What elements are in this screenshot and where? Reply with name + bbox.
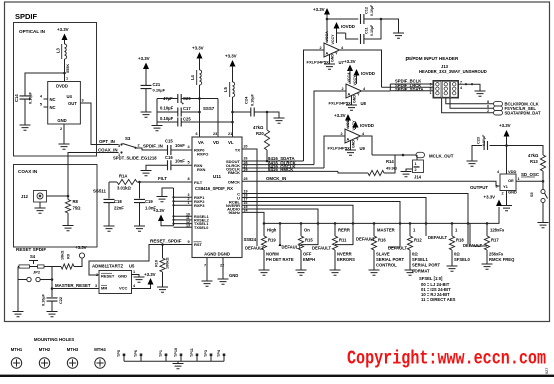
svg-text:2: 2 bbox=[341, 132, 343, 136]
wire cap left bus bbox=[156, 99, 158, 126]
svg-text:EMPH: EMPH bbox=[303, 257, 315, 262]
wire pin stub bbox=[174, 219, 193, 221]
ground bbox=[393, 33, 404, 38]
net 8416_OSCLK bbox=[242, 167, 324, 169]
power IOVDD U7 bbox=[334, 22, 340, 29]
wire U9 input bbox=[324, 136, 345, 168]
inductor L5 bbox=[233, 82, 235, 97]
svg-text:OMCK: OMCK bbox=[228, 179, 240, 184]
svg-text:TP10: TP10 bbox=[174, 348, 178, 357]
OPTICAL IN section box bbox=[14, 23, 97, 157]
wire C16 left to ground bbox=[146, 165, 167, 170]
ground bbox=[296, 270, 307, 275]
net AUDIO status bbox=[242, 209, 318, 245]
svg-text:TP3: TP3 bbox=[204, 350, 208, 357]
svg-text:SDATA/IPDM_DAT: SDATA/IPDM_DAT bbox=[505, 110, 541, 115]
header J13 3x3 bbox=[433, 81, 459, 99]
svg-text:ERRORS: ERRORS bbox=[337, 257, 355, 262]
oscillator Y1 bbox=[500, 174, 516, 191]
wire U4 gnd bbox=[63, 124, 65, 144]
svg-text:3.01kΩ: 3.01kΩ bbox=[117, 186, 131, 191]
svg-text:+3.3V: +3.3V bbox=[225, 54, 237, 59]
svg-text:C15: C15 bbox=[165, 139, 173, 144]
svg-text:TP4: TP4 bbox=[217, 349, 221, 357]
ground bbox=[330, 270, 341, 275]
svg-text:JP2: JP2 bbox=[33, 270, 41, 275]
svg-text:2: 2 bbox=[415, 168, 417, 172]
svg-text:3: 3 bbox=[118, 144, 120, 148]
capacitor C15 bbox=[168, 145, 171, 155]
svg-text:C23: C23 bbox=[477, 137, 481, 144]
wire header right gnd bbox=[459, 84, 481, 91]
svg-text:OE: OE bbox=[508, 178, 514, 183]
svg-text:3: 3 bbox=[82, 99, 84, 103]
wire R14 to MCLK bbox=[384, 155, 403, 173]
svg-text:25: 25 bbox=[244, 177, 248, 181]
svg-text:NC: NC bbox=[50, 97, 56, 102]
svg-text:FILT: FILT bbox=[194, 180, 203, 185]
svg-text:NVERR: NVERR bbox=[337, 252, 352, 257]
svg-text:22: 22 bbox=[220, 264, 224, 268]
ground bbox=[152, 126, 163, 131]
svg-text:VCCA: VCCA bbox=[346, 117, 350, 128]
ground bbox=[104, 226, 115, 231]
pin NC 5 bbox=[44, 106, 48, 108]
svg-text:6: 6 bbox=[196, 132, 198, 136]
svg-text:Copyright:www.eccn.com: Copyright:www.eccn.com bbox=[347, 348, 546, 370]
svg-text:49.9Ω: 49.9Ω bbox=[386, 166, 398, 171]
svg-text:R16: R16 bbox=[378, 238, 386, 243]
svg-text:NORM: NORM bbox=[266, 252, 279, 257]
ground bbox=[202, 281, 213, 286]
svg-text:VA: VA bbox=[198, 140, 205, 145]
svg-text:IOVDD: IOVDD bbox=[360, 123, 374, 128]
svg-text:CS8416_SPDIF_RX: CS8416_SPDIF_RX bbox=[195, 186, 233, 191]
svg-text:SS824: SS824 bbox=[244, 237, 257, 242]
resistor R1A bbox=[117, 179, 137, 184]
svg-text:S/PDM INPUT HEADER: S/PDM INPUT HEADER bbox=[408, 56, 459, 61]
svg-text:R12: R12 bbox=[414, 238, 422, 243]
svg-text:0.10µF: 0.10µF bbox=[160, 116, 174, 121]
svg-text:IOVDD: IOVDD bbox=[341, 24, 355, 29]
wire U8 output bbox=[362, 90, 391, 92]
svg-text:GND: GND bbox=[330, 54, 334, 62]
svg-text:RMCK: RMCK bbox=[228, 170, 240, 175]
ground bbox=[13, 312, 24, 317]
wire pin stub bbox=[174, 223, 193, 225]
svg-text:SPDT_SLIDE_EG1218: SPDT_SLIDE_EG1218 bbox=[113, 156, 157, 161]
svg-text:MTH4: MTH4 bbox=[94, 347, 106, 352]
wire J12 out bbox=[47, 195, 69, 197]
svg-text:U9: U9 bbox=[360, 146, 366, 151]
capacitor C14 bbox=[20, 96, 31, 99]
wire SPDIF_IN junction up bbox=[160, 149, 167, 151]
net 8416_RMCK bbox=[242, 170, 338, 172]
ground bbox=[63, 226, 74, 231]
resistor R16 strap bbox=[373, 223, 375, 236]
svg-text:FORMAT: FORMAT bbox=[412, 268, 430, 273]
svg-text:TP11: TP11 bbox=[190, 348, 194, 357]
net 96kHz status bbox=[242, 212, 264, 234]
wires header to output jacks bbox=[446, 98, 494, 104]
wire TP bus bbox=[124, 360, 224, 362]
wire VA rail bbox=[199, 85, 201, 137]
svg-text:R13: R13 bbox=[530, 159, 538, 164]
capacitor C16 bbox=[168, 160, 171, 170]
ground bbox=[482, 264, 493, 269]
ground bbox=[35, 208, 46, 213]
wire C16 to RXN bbox=[171, 164, 192, 166]
svg-text:L5: L5 bbox=[223, 86, 228, 92]
wire S4 left gnd bbox=[17, 280, 19, 312]
svg-text:SSS7: SSS7 bbox=[203, 106, 215, 111]
svg-text:DEFAULT: DEFAULT bbox=[428, 235, 447, 240]
resistor R14 bbox=[338, 171, 368, 173]
svg-text:10kΩ: 10kΩ bbox=[61, 251, 65, 260]
ground bbox=[59, 144, 70, 149]
wire pin stub bbox=[174, 200, 193, 202]
ground bbox=[157, 287, 168, 292]
svg-text:GND: GND bbox=[57, 118, 66, 123]
svg-text:RESET: RESET bbox=[101, 274, 115, 279]
svg-text:VCCY: VCCY bbox=[353, 75, 357, 86]
ground bbox=[134, 277, 145, 282]
svg-text:IOVDD: IOVDD bbox=[361, 71, 375, 76]
svg-text:96kHz: 96kHz bbox=[228, 210, 240, 215]
svg-text:U8: U8 bbox=[361, 101, 367, 106]
wire C11 right bbox=[364, 19, 381, 39]
svg-text:S5: S5 bbox=[530, 192, 534, 197]
svg-text:10nF: 10nF bbox=[175, 143, 185, 148]
wire tie bus bbox=[173, 188, 175, 226]
svg-text:TX: TX bbox=[235, 148, 240, 153]
net FILT wire bbox=[109, 181, 117, 183]
svg-text:C16: C16 bbox=[165, 155, 173, 160]
svg-text:0.10µF: 0.10µF bbox=[370, 4, 374, 16]
ground bbox=[467, 161, 478, 166]
svg-text:U5: U5 bbox=[129, 264, 135, 269]
svg-text:0.10µF: 0.10µF bbox=[42, 293, 46, 306]
svg-text:OMCK_IN: OMCK_IN bbox=[266, 176, 286, 181]
svg-text:3: 3 bbox=[496, 185, 498, 189]
svg-text:VCC: VCC bbox=[119, 286, 128, 291]
svg-text:0Ω: 0Ω bbox=[454, 252, 460, 257]
wire Y1 gnd bbox=[506, 191, 508, 206]
svg-text:R11: R11 bbox=[339, 238, 347, 243]
svg-text:SLAVE: SLAVE bbox=[376, 252, 390, 257]
svg-text:RERR: RERR bbox=[338, 228, 350, 233]
ground bbox=[141, 171, 152, 176]
net OMCK_IN bbox=[242, 181, 500, 186]
net RCBL status bbox=[242, 202, 400, 248]
svg-text:C18: C18 bbox=[114, 199, 122, 204]
svg-text:C21: C21 bbox=[153, 82, 161, 87]
svg-text:R19: R19 bbox=[268, 238, 276, 243]
connector MCLK_OUT bbox=[403, 154, 416, 156]
COAX IN section box bbox=[14, 165, 98, 248]
svg-text:5: 5 bbox=[188, 160, 190, 164]
svg-text:U11: U11 bbox=[213, 174, 222, 179]
svg-text:555K: 555K bbox=[66, 64, 70, 73]
wire master reset bbox=[52, 267, 99, 289]
bottom bar bbox=[0, 375, 554, 377]
svg-text:MTH1: MTH1 bbox=[11, 347, 23, 352]
wire R17 option bbox=[470, 223, 487, 246]
svg-text:RESET_SPDIF: RESET_SPDIF bbox=[150, 239, 182, 244]
svg-text:NC: NC bbox=[50, 105, 56, 110]
svg-text:C19: C19 bbox=[145, 199, 153, 204]
svg-text:RST: RST bbox=[194, 242, 203, 247]
svg-text:0.10µF: 0.10µF bbox=[370, 24, 374, 36]
svg-text:VL: VL bbox=[228, 140, 234, 145]
wire bbox=[24, 99, 26, 125]
net RESET_SPDIF bbox=[89, 245, 192, 276]
capacitor C12 bbox=[327, 18, 358, 20]
svg-text:+3.3V: +3.3V bbox=[334, 113, 346, 118]
svg-text:J12: J12 bbox=[21, 194, 29, 199]
svg-text:OPT_IN: OPT_IN bbox=[99, 139, 115, 144]
svg-text:RXPO: RXPO bbox=[197, 152, 208, 157]
svg-text:GND: GND bbox=[352, 95, 356, 103]
svg-text:OUTPUT: OUTPUT bbox=[470, 185, 488, 190]
svg-text:47kΩ: 47kΩ bbox=[528, 153, 539, 158]
ground bbox=[141, 112, 152, 117]
svg-text:C12: C12 bbox=[365, 7, 369, 14]
wire pin stub bbox=[174, 204, 193, 206]
svg-text:SFSEL0: SFSEL0 bbox=[454, 257, 470, 262]
svg-text:+3.3V: +3.3V bbox=[75, 245, 87, 250]
ground bbox=[47, 312, 58, 317]
wire C15 to RXP0 bbox=[171, 149, 192, 151]
svg-text:C24: C24 bbox=[244, 96, 249, 104]
svg-text:R1A: R1A bbox=[119, 174, 127, 179]
svg-text:11 = DIRECT AES: 11 = DIRECT AES bbox=[421, 297, 456, 302]
ground bbox=[157, 197, 168, 202]
capacitor C18 bbox=[108, 182, 110, 199]
connector J14 bbox=[413, 160, 424, 173]
svg-text:VCCA: VCCA bbox=[325, 31, 329, 42]
svg-text:C22: C22 bbox=[59, 297, 63, 304]
svg-text:GND: GND bbox=[508, 190, 517, 195]
svg-text:MOUNTING HOLES: MOUNTING HOLES bbox=[34, 337, 74, 342]
svg-text:2: 2 bbox=[320, 46, 322, 50]
svg-text:VDD: VDD bbox=[508, 169, 517, 174]
svg-text:8: 8 bbox=[487, 100, 489, 104]
svg-text:+3.3V: +3.3V bbox=[313, 7, 325, 12]
svg-text:23: 23 bbox=[213, 132, 217, 136]
svg-text:5: 5 bbox=[40, 103, 42, 107]
buffer U7 FXLP34P5X bbox=[324, 43, 340, 57]
wire SPDIF_IN bbox=[136, 148, 168, 150]
net C status bbox=[242, 194, 468, 245]
svg-text:MR: MR bbox=[101, 286, 107, 291]
svg-text:R20: R20 bbox=[256, 131, 264, 136]
capacitor C22 bbox=[51, 289, 53, 298]
svg-text:128xFs: 128xFs bbox=[490, 228, 505, 233]
svg-text:0Ω: 0Ω bbox=[412, 252, 418, 257]
svg-text:MTH2: MTH2 bbox=[39, 347, 51, 352]
svg-text:0.10µF: 0.10µF bbox=[153, 88, 166, 93]
default strap stub bbox=[279, 223, 281, 245]
power IOVDD U9 bbox=[353, 121, 359, 128]
svg-text:ADM811TARTZ: ADM811TARTZ bbox=[92, 264, 123, 269]
wire bbox=[64, 40, 66, 45]
resistor R18 strap bbox=[451, 223, 453, 236]
svg-text:FILT: FILT bbox=[158, 176, 167, 181]
wire bus join bbox=[389, 84, 391, 91]
net TX bbox=[242, 149, 257, 246]
svg-text:SERIAL PORT: SERIAL PORT bbox=[412, 263, 441, 268]
svg-text:26: 26 bbox=[244, 157, 248, 161]
svg-text:J14: J14 bbox=[414, 175, 422, 180]
svg-text:14: 14 bbox=[244, 208, 248, 212]
svg-text:VCCA: VCCA bbox=[347, 72, 351, 83]
wire U9 output bbox=[361, 136, 373, 155]
svg-text:GND: GND bbox=[229, 273, 238, 278]
svg-text:+3.3V: +3.3V bbox=[153, 208, 165, 213]
svg-text:C25: C25 bbox=[183, 117, 191, 122]
svg-text:1: 1 bbox=[66, 77, 68, 81]
svg-text:A: A bbox=[348, 93, 351, 97]
wire OE to R13 bbox=[516, 180, 543, 182]
svg-text:AGND DGND: AGND DGND bbox=[204, 252, 230, 257]
svg-text:+3.3V: +3.3V bbox=[344, 59, 356, 64]
svg-text:9: 9 bbox=[188, 240, 190, 244]
inductor L4 bbox=[200, 70, 202, 85]
svg-text:1: 1 bbox=[133, 270, 135, 274]
resistor R8 bbox=[67, 196, 69, 200]
wire VD rail bbox=[217, 99, 219, 138]
svg-text:2: 2 bbox=[502, 192, 504, 196]
svg-text:3: 3 bbox=[95, 284, 97, 288]
svg-text:+3.3V: +3.3V bbox=[144, 272, 156, 277]
svg-text:S4: S4 bbox=[30, 254, 36, 259]
wire J12 shell to ground bbox=[39, 202, 41, 208]
wire pin stub bbox=[174, 196, 193, 198]
svg-text:+3.3V: +3.3V bbox=[484, 195, 496, 200]
svg-text:A: A bbox=[347, 138, 350, 142]
wire bbox=[64, 59, 66, 82]
ground bbox=[405, 270, 416, 275]
wire U7 input bbox=[304, 50, 325, 161]
buffer U9 FXLP34P5X bbox=[345, 129, 361, 143]
svg-text:1: 1 bbox=[188, 201, 190, 205]
svg-text:RESET SPDIF: RESET SPDIF bbox=[16, 247, 46, 252]
svg-text:+3.3V: +3.3V bbox=[138, 56, 150, 61]
net 8416_SDATA bbox=[242, 160, 304, 162]
connector SDATA/IPDM_DAT bbox=[494, 111, 503, 115]
optical receiver U4 bbox=[48, 82, 81, 125]
svg-text:RXN: RXN bbox=[197, 167, 206, 172]
ground bbox=[218, 279, 229, 284]
svg-text:75Ω: 75Ω bbox=[73, 206, 82, 211]
svg-text:On: On bbox=[304, 228, 310, 233]
svg-text:+3.3V: +3.3V bbox=[57, 27, 69, 32]
resistor R19 strap bbox=[263, 223, 265, 236]
svg-text:256xFs: 256xFs bbox=[489, 252, 504, 257]
svg-text:OFF: OFF bbox=[303, 252, 312, 257]
svg-text:U4: U4 bbox=[67, 94, 73, 99]
svg-text:8416_RMCK: 8416_RMCK bbox=[268, 167, 294, 172]
ground bbox=[259, 270, 270, 275]
svg-text:1: 1 bbox=[430, 91, 432, 95]
svg-text:7: 7 bbox=[204, 264, 206, 268]
svg-text:GND: GND bbox=[118, 274, 127, 279]
svg-text:027: 027 bbox=[545, 368, 549, 374]
svg-text:10nF: 10nF bbox=[175, 159, 185, 164]
capacitor C11 bbox=[346, 33, 359, 39]
ground bbox=[538, 223, 549, 228]
svg-text:1: 1 bbox=[518, 177, 520, 181]
net U status bbox=[242, 198, 426, 237]
svg-text:29: 29 bbox=[244, 168, 248, 172]
svg-text:2: 2 bbox=[487, 109, 489, 113]
resistor R17 strap bbox=[486, 223, 488, 236]
svg-text:SD_OSC: SD_OSC bbox=[521, 172, 540, 177]
svg-text:R17: R17 bbox=[491, 238, 499, 243]
wire bbox=[25, 73, 65, 96]
svg-text:SERIAL PORT: SERIAL PORT bbox=[376, 257, 405, 262]
svg-text:COAX_IN: COAX_IN bbox=[98, 148, 118, 153]
svg-text:RXP3: RXP3 bbox=[194, 203, 205, 208]
wire pin stub bbox=[174, 215, 193, 217]
svg-text:SPDIF: SPDIF bbox=[15, 12, 38, 21]
svg-text:+3.3V: +3.3V bbox=[192, 46, 204, 51]
svg-text:MTH3: MTH3 bbox=[67, 347, 79, 352]
svg-text:21: 21 bbox=[228, 132, 232, 136]
svg-text:2: 2 bbox=[138, 144, 140, 148]
svg-text:L4: L4 bbox=[190, 74, 195, 80]
svg-text:CONTROL: CONTROL bbox=[376, 263, 397, 268]
svg-text:4: 4 bbox=[460, 86, 462, 90]
svg-text:VD: VD bbox=[213, 140, 219, 145]
ground bbox=[134, 226, 145, 231]
capacitor C21 bbox=[141, 85, 152, 88]
inductor L3 bbox=[65, 44, 67, 59]
svg-text:SPDIF_SDATA: SPDIF_SDATA bbox=[395, 87, 423, 92]
svg-text:R18: R18 bbox=[456, 238, 464, 243]
wire COAX_IN up to switch bbox=[68, 153, 119, 197]
svg-text:R8: R8 bbox=[73, 199, 79, 204]
svg-text:C11: C11 bbox=[365, 27, 369, 34]
svg-text:1: 1 bbox=[415, 162, 417, 166]
svg-text:0.10µF: 0.10µF bbox=[251, 93, 255, 106]
svg-text:DEFAULT: DEFAULT bbox=[388, 246, 407, 251]
svg-text:SPDIF_IN: SPDIF_IN bbox=[143, 144, 163, 149]
svg-text:OUT: OUT bbox=[68, 101, 77, 106]
resistor R11 strap bbox=[334, 223, 336, 236]
ground bbox=[401, 172, 412, 177]
wire U5 gnd bbox=[132, 275, 140, 278]
ground bbox=[369, 270, 380, 275]
wire U7 output bbox=[340, 50, 382, 87]
wire R8 gnd bbox=[67, 213, 69, 226]
buffer U8 FXLP34P5X bbox=[346, 84, 362, 98]
ground bbox=[447, 266, 458, 271]
svg-text:MASTER: MASTER bbox=[377, 228, 395, 233]
svg-text:L3: L3 bbox=[56, 47, 61, 53]
svg-text:SFSEL [1:0]: SFSEL [1:0] bbox=[419, 276, 443, 281]
svg-text:MASTER_RESET: MASTER_RESET bbox=[55, 283, 91, 288]
svg-text:13: 13 bbox=[186, 224, 190, 228]
svg-text:SFSEL1: SFSEL1 bbox=[412, 257, 428, 262]
wire pin stub bbox=[174, 226, 193, 228]
net 8416_OLRCK bbox=[242, 164, 314, 166]
svg-text:PH DET RATE: PH DET RATE bbox=[266, 257, 294, 262]
wire VL rail bbox=[232, 97, 234, 137]
svg-text:Y1: Y1 bbox=[503, 184, 509, 189]
ground bbox=[274, 118, 285, 123]
